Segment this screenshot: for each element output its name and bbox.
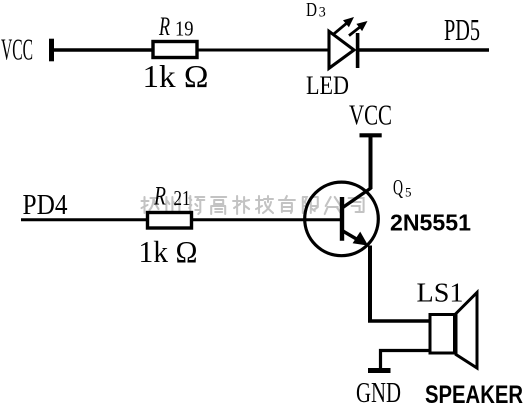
resistor R21 xyxy=(148,213,192,229)
svg-text:5: 5 xyxy=(405,185,412,200)
svg-text:PD4: PD4 xyxy=(23,189,68,221)
label GND xyxy=(356,377,401,403)
label LS1 xyxy=(417,278,464,308)
label Q5 xyxy=(393,175,412,200)
diode D3 cathode bar xyxy=(356,33,360,68)
svg-text:LED: LED xyxy=(306,70,349,100)
svg-text:1k Ω: 1k Ω xyxy=(139,235,198,269)
svg-text:2N5551: 2N5551 xyxy=(390,210,471,236)
value 1kΩ (R21) xyxy=(139,235,198,269)
Q5 collector diagonal xyxy=(342,188,371,208)
wire D3 to PD5 xyxy=(359,48,489,51)
label D3 xyxy=(306,0,326,21)
label 2N5551 xyxy=(390,210,471,236)
resistor R19 xyxy=(153,42,197,58)
wire emitter down xyxy=(368,246,372,323)
svg-text:LS1: LS1 xyxy=(417,278,464,308)
node VCC (top-left) label xyxy=(1,32,33,67)
node PD5 label xyxy=(444,12,480,47)
ground bar xyxy=(368,368,391,373)
VCC terminal bar (middle) xyxy=(360,133,382,137)
speaker LS1 box xyxy=(430,315,455,354)
watermark xyxy=(142,196,364,215)
svg-text:D: D xyxy=(306,0,317,21)
svg-text:PD5: PD5 xyxy=(444,12,480,47)
wire R21 to Q5 base xyxy=(191,218,342,221)
LED arrow 1 xyxy=(334,17,355,34)
svg-text:Q: Q xyxy=(393,175,403,200)
wire PD4 to R21 xyxy=(21,218,147,221)
wire R19 to D3 xyxy=(197,49,330,52)
Q5 base bar xyxy=(340,197,344,241)
speaker LS1 horn xyxy=(456,293,477,369)
node VCC (middle) label xyxy=(349,100,392,131)
transistor Q5 circle xyxy=(305,182,379,256)
label R19 xyxy=(158,11,193,41)
svg-text:1k Ω: 1k Ω xyxy=(143,58,209,94)
LED arrow 2 xyxy=(349,21,368,36)
svg-text:SPEAKER: SPEAKER xyxy=(425,381,523,403)
svg-text:VCC: VCC xyxy=(1,32,33,67)
svg-text:21: 21 xyxy=(174,186,191,210)
svg-text:R: R xyxy=(158,11,170,41)
label SPEAKER xyxy=(425,381,523,403)
label R21 xyxy=(153,181,190,211)
label LED xyxy=(306,70,349,100)
diode D3 (LED) triangle xyxy=(329,31,354,68)
svg-text:VCC: VCC xyxy=(349,100,392,131)
wire to speaker top xyxy=(368,319,430,322)
Q5 emitter diagonal with arrow xyxy=(342,231,368,246)
wire speaker bottom xyxy=(381,351,431,370)
node PD4 label xyxy=(23,189,68,221)
wire collector to VCC xyxy=(369,135,373,189)
svg-text:R: R xyxy=(153,181,166,211)
svg-text:19: 19 xyxy=(175,16,194,40)
VCC terminal bar xyxy=(49,39,54,62)
value 1kΩ (R19) xyxy=(143,58,209,94)
svg-text:3: 3 xyxy=(319,4,326,20)
wire VCC to R19 xyxy=(51,48,152,51)
svg-text:GND: GND xyxy=(356,377,401,403)
